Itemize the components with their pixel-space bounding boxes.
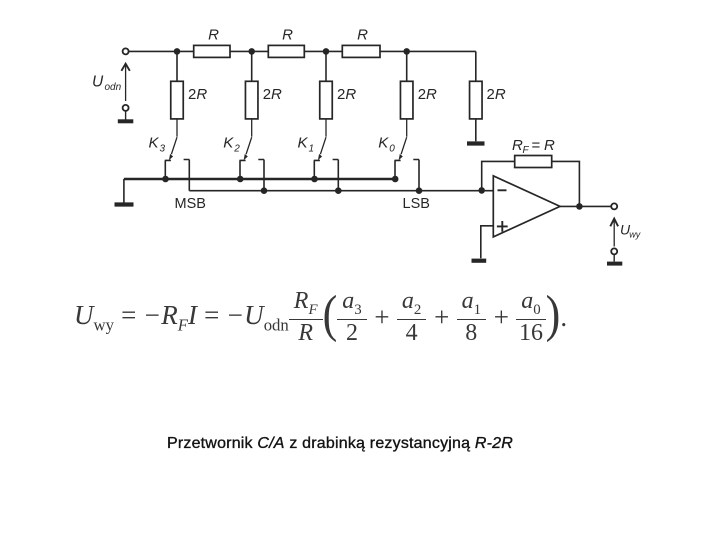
svg-text:K: K xyxy=(223,135,234,152)
svg-text:2R: 2R xyxy=(487,86,506,103)
label K2 xyxy=(223,135,240,155)
terminal Uwy top xyxy=(611,203,617,209)
svg-text:2: 2 xyxy=(233,144,240,155)
branch K2: leg+2R+lever xyxy=(244,51,258,160)
svg-text:R: R xyxy=(512,137,523,154)
svg-text:R: R xyxy=(357,26,368,43)
Uwy arrow xyxy=(610,219,618,247)
switch K0 left contact xyxy=(395,160,401,179)
branch K0: leg+2R+lever xyxy=(399,51,413,160)
svg-text:0: 0 xyxy=(389,144,395,155)
svg-text:K: K xyxy=(149,135,160,152)
switch K2 right contact xyxy=(258,160,264,191)
branch K1: leg+2R+lever xyxy=(318,51,332,160)
switch K1 left contact xyxy=(314,160,320,179)
label RF = R xyxy=(512,137,555,156)
junction dot output xyxy=(576,203,583,210)
junction dot K1 upper bus xyxy=(311,176,318,183)
label LSB xyxy=(403,196,430,212)
op-amp U1 xyxy=(493,176,560,237)
Uodn source arrow xyxy=(121,64,129,101)
node dot 2 xyxy=(248,48,255,55)
svg-text:2R: 2R xyxy=(418,86,437,103)
label K3 xyxy=(149,135,166,155)
node dot 4 xyxy=(403,48,410,55)
label Uwy xyxy=(620,222,641,240)
wire upper bus (ground bus) xyxy=(124,178,395,181)
terminal Uwy bottom xyxy=(611,248,617,254)
formula Uwy = -RF I = -Uodn (RF/R)(a3/2 + a2/4 + a1/8 + a0/16) xyxy=(74,289,567,347)
resistor R (second) xyxy=(268,26,304,57)
wire output xyxy=(560,205,611,207)
label 2R (K0) xyxy=(418,86,437,103)
label MSB xyxy=(175,196,206,212)
terminating resistor 2R xyxy=(470,81,483,141)
junction dot K1 lower bus xyxy=(335,187,342,194)
resistor RF xyxy=(515,156,552,168)
switch K3 right contact xyxy=(184,160,190,191)
wire lower bus (signal to op-amp) xyxy=(189,190,493,192)
junction dot K0 lower bus xyxy=(416,187,423,194)
terminal Uodn bottom xyxy=(123,105,129,111)
ground (op-amp +) xyxy=(472,259,487,263)
switch K3 left contact xyxy=(165,160,171,179)
svg-text:wy: wy xyxy=(629,230,640,240)
svg-text:2R: 2R xyxy=(337,86,356,103)
wire top rail xyxy=(129,50,476,52)
resistor R (third) xyxy=(342,26,380,57)
junction dot K0 upper bus xyxy=(392,176,399,183)
wire terminating branch drop xyxy=(475,51,477,81)
resistor R (first) xyxy=(194,26,230,57)
label 2R (terminating) xyxy=(487,86,506,103)
circuit schematic xyxy=(0,0,720,285)
caption xyxy=(0,435,680,453)
svg-text:R: R xyxy=(544,137,555,154)
node dot 3 xyxy=(323,48,330,55)
svg-text:R: R xyxy=(282,26,293,43)
ground (Uwy) xyxy=(607,254,622,263)
ground (Uodn) xyxy=(118,111,134,121)
svg-text:1: 1 xyxy=(309,144,315,155)
svg-text:K: K xyxy=(378,135,389,152)
label Uodn xyxy=(92,74,122,94)
node dot 1 xyxy=(174,48,181,55)
svg-text:2R: 2R xyxy=(188,86,207,103)
svg-text:MSB: MSB xyxy=(175,196,206,212)
junction dot K2 lower bus xyxy=(261,187,268,194)
svg-text:LSB: LSB xyxy=(403,196,430,212)
junction dot K2 upper bus xyxy=(237,176,244,183)
svg-text:3: 3 xyxy=(160,144,166,155)
wire feedback loop xyxy=(482,161,580,206)
svg-text:2R: 2R xyxy=(263,86,282,103)
svg-text:U: U xyxy=(92,74,104,91)
svg-text:R: R xyxy=(208,26,219,43)
switch K2 left contact xyxy=(240,160,246,179)
svg-text:=: = xyxy=(532,137,541,154)
switch K1 right contact xyxy=(333,160,339,191)
input terminal Uodn top xyxy=(123,48,129,54)
svg-text:F: F xyxy=(523,145,530,156)
switch K0 right contact xyxy=(413,160,419,191)
svg-text:K: K xyxy=(298,135,309,152)
wire non-inverting to ground xyxy=(481,226,494,258)
junction dot K3 upper bus xyxy=(162,176,169,183)
ground (terminating 2R) xyxy=(467,141,485,145)
svg-text:odn: odn xyxy=(105,82,122,93)
label 2R (K1) xyxy=(337,86,356,103)
ground (upper bus left) xyxy=(115,179,134,205)
label K0 xyxy=(378,135,395,155)
label 2R (K3) xyxy=(188,86,207,103)
junction dot inverting input xyxy=(478,187,485,194)
branch K3: leg+2R+lever xyxy=(169,51,183,160)
label K1 xyxy=(298,135,315,155)
label 2R (K2) xyxy=(263,86,282,103)
